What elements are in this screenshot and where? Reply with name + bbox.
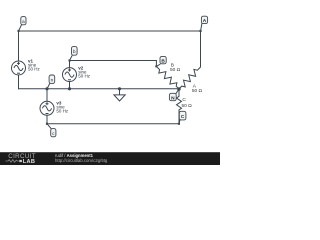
node flag b: [69, 47, 78, 62]
svg-text:b: b: [73, 49, 76, 54]
svg-text:A: A: [203, 18, 207, 24]
node flag A: [200, 16, 208, 32]
wire net b drop to resistor B: [155, 61, 157, 67]
svg-text:http://circuitlab.com/c2g/5tg: http://circuitlab.com/c2g/5tg: [55, 158, 108, 163]
label v3 sine 50 Hz: [56, 100, 69, 113]
svg-text:50 Ω: 50 Ω: [182, 103, 193, 109]
node flag N: [169, 89, 178, 101]
junction dot v2 bottom on neutral: [68, 87, 71, 90]
resistor B 50ohm: [156, 66, 179, 89]
wire resistor C bottom to bottom net: [178, 111, 180, 124]
node flag C: [178, 111, 186, 124]
svg-text:a: a: [22, 19, 25, 24]
resistor A 50ohm: [179, 67, 201, 89]
footer logo CIRCUIT LAB: [6, 153, 36, 165]
svg-text:50 Ω: 50 Ω: [192, 88, 203, 94]
svg-text:C: C: [181, 114, 185, 120]
source v1 sine: [12, 61, 26, 75]
svg-text:LAB: LAB: [23, 159, 35, 165]
wire bottom net c horizontal: [47, 123, 179, 125]
junction dot ground on neutral: [118, 87, 121, 90]
wire v3 top lead from neutral: [46, 89, 48, 102]
wire top net a (a to A): [19, 30, 201, 32]
footer bar: [0, 152, 220, 165]
label A 50ohm: [192, 83, 203, 94]
svg-text:50 Ω: 50 Ω: [170, 67, 181, 73]
svg-text:50 Hz: 50 Hz: [78, 74, 91, 79]
node flag c: [46, 123, 56, 137]
label B 50ohm: [170, 62, 181, 73]
wire neutral net n horizontal: [19, 88, 180, 90]
label v2 sine 50 Hz: [78, 65, 91, 78]
label C 50ohm: [182, 97, 193, 109]
node flag n: [47, 75, 54, 88]
source v3 sine: [40, 101, 54, 115]
wire net b horizontal: [70, 60, 157, 62]
svg-text:n: n: [51, 77, 54, 82]
wire v1 top lead to node a corner: [18, 31, 20, 61]
junction dot star point N: [177, 87, 180, 90]
svg-text:50 Hz: 50 Hz: [28, 67, 41, 72]
node flag a: [18, 17, 27, 32]
wire v3 bottom lead to node c corner: [46, 115, 48, 124]
svg-text:N: N: [171, 95, 175, 101]
resistor C 50ohm: [177, 89, 182, 111]
wire v2 bottom lead to neutral: [69, 82, 71, 89]
svg-text:B: B: [161, 58, 165, 64]
ground symbol on neutral: [114, 89, 125, 101]
svg-text:C: C: [182, 97, 186, 103]
node flag B: [155, 56, 166, 67]
junction dot v3 top on neutral: [45, 87, 48, 90]
source v2 sine: [63, 68, 77, 82]
wire right vertical A down to resistor A: [200, 31, 202, 67]
wire v2 top lead up to bend b: [69, 61, 71, 68]
label v1 sine 50 Hz: [28, 58, 41, 71]
svg-text:50 Hz: 50 Hz: [56, 109, 69, 114]
wire v1 bottom lead to neutral: [18, 75, 20, 89]
